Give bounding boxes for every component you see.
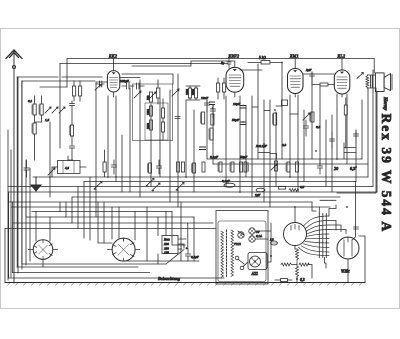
wire col 326 — [325, 120, 327, 187]
capacitor C6 — [205, 100, 210, 112]
wire drop sA left — [35, 212, 37, 242]
junction dot bus c — [239, 191, 241, 193]
capacitor C3 — [24, 160, 29, 177]
wire drop x119 — [118, 207, 120, 238]
wire mid col g — [185, 100, 187, 177]
label R21 dash — [217, 163, 219, 171]
capacitor C5 — [137, 83, 145, 89]
wire R16 leads — [313, 84, 334, 86]
wire mid col d — [159, 99, 161, 177]
svg-text:1000: 1000 — [146, 109, 150, 116]
junction dot 5k — [281, 62, 283, 64]
dot t7 — [49, 176, 51, 178]
resistor R19 — [193, 163, 196, 173]
capacitor C14 — [354, 130, 359, 142]
wire col 270 — [269, 100, 271, 207]
resistor R16 horizontal — [320, 83, 328, 86]
switch arm mains — [166, 250, 184, 265]
wire nest top c — [71, 197, 73, 223]
output transformer windings — [366, 75, 376, 88]
svg-text:Horny: Horny — [382, 96, 387, 111]
capacitor C15 2uF — [310, 72, 315, 86]
zigzag on bus — [289, 189, 299, 192]
trimmer arrow EK2 — [95, 85, 101, 91]
wire block leads — [52, 156, 86, 177]
elko plus marks — [210, 102, 215, 105]
wire right v355 — [352, 182, 355, 241]
wire col 258 — [257, 64, 259, 159]
wire socket A stem — [42, 260, 44, 267]
dot t3 — [212, 107, 214, 109]
trimmer arrow t2 — [48, 168, 55, 175]
wire bus 6 — [8, 201, 312, 203]
wire socket stubs lr — [29, 249, 140, 251]
trimmer arrow R22 — [271, 164, 277, 170]
wire ladder riser a — [318, 207, 320, 214]
resistor R11 — [274, 113, 277, 125]
IF transformer T1 coil a — [73, 86, 76, 96]
band switch arrow a — [146, 179, 154, 187]
resistor R7 — [162, 122, 165, 132]
wire drop x147 — [146, 207, 148, 261]
resistor R10b — [202, 112, 205, 124]
wire EM1 cathode — [289, 95, 291, 177]
electrolytic block 4uF — [58, 161, 81, 174]
wire x72 — [71, 101, 73, 145]
tube socket V3 right — [337, 237, 359, 259]
trimmer arrow t4 — [149, 92, 156, 99]
trimmer arrow t1a — [45, 107, 51, 113]
power unit box — [216, 211, 268, 285]
pilot contact c1 — [235, 256, 239, 260]
capacitor C7 — [211, 105, 216, 118]
wire mid col a — [129, 88, 131, 192]
label R1 — [31, 105, 33, 114]
resistor R17 — [103, 162, 106, 172]
dot t8 — [107, 176, 109, 178]
wire left col 6 — [29, 168, 31, 261]
wire T1 ties — [74, 81, 80, 101]
wire fan riser2 — [312, 202, 316, 211]
resistor R24 — [296, 162, 299, 172]
wire bottom b5 — [9, 277, 224, 279]
tubular capacitor on bus 1 — [224, 183, 235, 187]
svg-text:0,1A: 0,1A — [256, 234, 262, 239]
antenna — [6, 50, 22, 283]
resistor R21d — [244, 162, 247, 172]
wire left drop 1 — [4, 229, 6, 283]
rectifier AZ1 box — [248, 253, 267, 270]
tie c — [276, 105, 282, 107]
oscillator coil L2 — [157, 88, 160, 98]
wire left drop 6 — [25, 207, 27, 217]
IF transformer T1 coil b — [79, 86, 82, 96]
transformer inner box — [218, 221, 266, 282]
tube EBF2 — [226, 61, 244, 97]
wire drop x135 — [134, 212, 136, 241]
pilot contact c2 — [240, 266, 244, 270]
wire mid col c — [150, 104, 152, 187]
wire left drop 3 — [12, 202, 14, 273]
dot t10 — [294, 206, 296, 208]
wire left col 1 — [7, 130, 9, 280]
wire EM1 to EL2 tie — [303, 73, 334, 75]
tube socket V2 — [112, 238, 135, 261]
coil L3a — [177, 162, 180, 172]
wire mid top tie — [240, 69, 262, 71]
wire power to fan — [268, 223, 271, 262]
wire power internals — [238, 231, 268, 239]
wire ladder riser b — [329, 205, 336, 216]
grid cap EBF2 — [227, 59, 231, 69]
wire drop x112 — [111, 207, 113, 239]
wire fan riser — [294, 207, 296, 223]
label R2b — [31, 124, 33, 133]
junction 6,3 top — [355, 166, 357, 168]
heater resistor bottom — [296, 266, 299, 278]
svg-text:Netz: Netz — [163, 238, 170, 242]
wire bus 7 — [11, 206, 330, 208]
svg-text:1,5: 1,5 — [45, 118, 50, 123]
wire left drop 5 — [21, 81, 23, 264]
junction dots R11 — [274, 109, 276, 111]
svg-text:10μF: 10μF — [233, 102, 241, 106]
IF transformer T2 coil b — [223, 83, 226, 92]
svg-text:5000: 5000 — [191, 89, 195, 96]
wire bottom b1 — [124, 260, 199, 262]
svg-text:1μF: 1μF — [255, 193, 261, 197]
wire terminals to socketC b — [329, 225, 341, 232]
wire R17 leads — [104, 150, 106, 177]
speaker — [375, 73, 392, 92]
wire terminal bottom cont — [325, 258, 327, 269]
junction dot bus a — [115, 176, 117, 178]
wire bottom b4 — [13, 272, 150, 274]
junction dot bus d — [289, 176, 291, 178]
wire selector leads — [178, 239, 186, 249]
resistor R22 — [275, 161, 278, 171]
resistor R18 — [149, 163, 152, 173]
trimmer arrow t7 — [357, 73, 363, 79]
wire main B+ bus — [33, 176, 368, 178]
svg-text:0,5: 0,5 — [300, 185, 304, 190]
wire right edge col — [372, 70, 374, 187]
osc outer box — [133, 84, 173, 141]
wire drop x181 — [180, 202, 182, 261]
label R2c — [68, 126, 70, 135]
label R2 — [38, 105, 40, 114]
wire drop x194 — [193, 217, 195, 261]
resistor 5k between EBF2 and EM1 — [248, 61, 282, 65]
dial lamp La1 — [249, 228, 255, 234]
label R11 — [272, 114, 274, 124]
dot t5 — [315, 150, 317, 152]
wire nest top a — [59, 202, 61, 212]
capacitor C4 100pF — [122, 83, 134, 89]
resistor box bottom — [275, 279, 292, 282]
wire nest h5 — [13, 222, 213, 224]
svg-text:10nF: 10nF — [201, 96, 209, 100]
svg-text:EBF2: EBF2 — [228, 54, 240, 59]
wire EBF2 cathode — [225, 96, 227, 187]
fan ladder verticals — [319, 214, 326, 258]
capacitor C72 — [70, 146, 75, 148]
resistor R20 — [202, 162, 205, 172]
wire x50 down — [49, 122, 51, 197]
wire antenna coupling vertical — [59, 64, 61, 149]
svg-text:500: 500 — [146, 95, 150, 100]
resistor R23 — [287, 162, 290, 172]
svg-text:3000: 3000 — [146, 123, 150, 130]
wire nest top f — [89, 177, 91, 240]
wire left col 2 — [10, 150, 12, 277]
resistor R3 — [150, 92, 153, 102]
wire left drop 4 — [16, 77, 18, 267]
wire heater bottom — [296, 277, 298, 283]
junction dot UR — [270, 255, 272, 257]
trimmer arrow t6 — [303, 113, 310, 120]
svg-text:220: 220 — [164, 242, 169, 246]
wire EK2 right grid — [122, 74, 173, 84]
wire drop x104 — [103, 202, 105, 243]
resistor R21c — [240, 162, 243, 172]
label R23 dash — [285, 163, 287, 171]
svg-text:LS: LS — [269, 238, 274, 242]
wire nest h6 — [5, 228, 216, 230]
resistor on bus — [279, 186, 286, 189]
wire col 320 — [319, 86, 321, 164]
tie a — [252, 106, 258, 108]
svg-text:2μF: 2μF — [306, 68, 312, 72]
wire R8R9 box — [186, 86, 200, 100]
dot t9 — [225, 186, 227, 188]
wire EBF2 col 1 — [206, 100, 208, 159]
tie e — [270, 154, 277, 160]
wire nest top b — [65, 202, 67, 217]
junction dot bus b — [185, 176, 187, 178]
dot t4 — [263, 143, 265, 145]
wire bus 3 — [8, 186, 373, 188]
wire tie 147 — [344, 143, 356, 159]
dot t6 — [71, 159, 73, 161]
wire x122 — [121, 135, 123, 192]
tube EL2 — [334, 59, 350, 98]
capacitor C21 — [318, 160, 323, 174]
label R14 — [309, 113, 311, 121]
wire HT bus right — [207, 158, 362, 160]
resistor R21 — [219, 162, 222, 172]
tie b — [264, 110, 270, 112]
wire drop x166 — [165, 212, 167, 236]
wire col 246 — [245, 106, 247, 177]
cap at 356 — [354, 227, 359, 229]
svg-text:5g: 5g — [221, 61, 225, 65]
junction dot bus e — [336, 158, 338, 160]
resistor R9 — [195, 88, 198, 98]
label R21b dash — [229, 163, 231, 171]
svg-text:0,3: 0,3 — [282, 143, 286, 148]
wire left col 4 — [21, 81, 23, 269]
svg-text:6,3: 6,3 — [350, 166, 355, 172]
wire bus 5 — [72, 196, 340, 198]
wire mid col e — [169, 90, 171, 202]
IF transformer T2 coil a — [217, 83, 220, 92]
ground arrow on B+ bus — [31, 177, 41, 191]
wire nest top d — [77, 187, 79, 229]
wire col 312 — [311, 72, 313, 159]
wire EL2 cathode — [336, 94, 338, 159]
wire R1R2 leads — [35, 96, 42, 123]
label R10 — [208, 129, 210, 139]
tubular capacitor on bus 2 — [256, 188, 265, 192]
resistor R2 — [40, 104, 43, 115]
wire terminals to socketC c — [329, 230, 346, 234]
capacitor C13 — [330, 132, 335, 148]
trimmer arrow t1c — [59, 107, 65, 113]
switch lines power — [239, 260, 249, 267]
wire screen bus right — [213, 163, 368, 165]
label R18 dash — [147, 164, 149, 172]
svg-text:EM1: EM1 — [289, 54, 299, 59]
wire R15 leads — [345, 98, 347, 148]
coil L3b — [182, 162, 185, 172]
resistor R8 — [189, 88, 192, 98]
wire right col 362 — [361, 100, 363, 159]
wire heater node — [292, 262, 312, 278]
wire bottom b3 — [17, 266, 138, 268]
wire R2b lead — [34, 134, 36, 160]
trimmer arrow t5 — [172, 89, 179, 96]
wire top anode bus — [67, 59, 374, 88]
wire mid col f — [177, 74, 179, 207]
wire L2 leads — [157, 80, 159, 104]
dot t2 — [242, 121, 244, 123]
osc box — [145, 103, 168, 140]
junction 6.3 — [296, 278, 298, 280]
wire EK2 screen down — [115, 96, 117, 182]
band arrows mid-left — [94, 182, 102, 190]
capacitor C18b — [200, 147, 206, 150]
resistor R10 — [210, 128, 213, 140]
fan tube socket — [284, 223, 307, 246]
heater resistor right — [299, 263, 309, 266]
switch dot — [186, 247, 188, 249]
wire drop x172 — [172, 212, 185, 246]
wire terminals to socketC a — [329, 221, 336, 231]
resistor R4 — [150, 106, 153, 116]
wire col 347 — [346, 94, 348, 164]
resistor R2b — [33, 123, 36, 134]
wire left col 3 — [17, 77, 19, 273]
tube socket V1 — [33, 240, 53, 260]
band switch arrow c — [176, 183, 184, 191]
voltage selector box — [162, 236, 178, 255]
svg-text:0,1: 0,1 — [28, 99, 33, 104]
capacitor C17 — [157, 160, 162, 174]
dial lamp La2 — [249, 236, 255, 242]
label R21d — [248, 163, 250, 171]
svg-text:AZ1: AZ1 — [251, 271, 259, 276]
wire col 252 — [251, 96, 253, 197]
capacitor C12 — [304, 120, 309, 136]
wire EBF2 col 2 — [212, 105, 214, 164]
svg-text:W.Rkt: W.Rkt — [341, 270, 350, 274]
capacitor 0,5uF mains — [186, 248, 191, 261]
wire bus 4 — [8, 191, 377, 193]
band switch arrow b — [152, 183, 160, 191]
wire col 264 — [263, 100, 265, 202]
wire col 332 — [331, 115, 333, 192]
svg-text:EK2: EK2 — [108, 54, 117, 59]
svg-text:125: 125 — [164, 251, 169, 255]
rectifier AZ1 — [250, 256, 261, 267]
wire col 356 — [355, 130, 357, 182]
svg-text:0,5μF: 0,5μF — [191, 255, 200, 260]
wire nest h3 — [32, 211, 172, 213]
wire right h193 — [337, 88, 376, 193]
svg-text:Rex 39 W 544 A: Rex 39 W 544 A — [379, 114, 394, 234]
wire drop x98 — [98, 202, 112, 243]
wire left horiz — [40, 86, 67, 88]
label R10b — [200, 113, 202, 123]
wire right socket bottom — [347, 259, 349, 283]
heater resistor left — [281, 263, 291, 266]
wire fan bottom stub — [295, 246, 297, 250]
capacitor C8b 50uF — [240, 122, 246, 125]
wire drop x188 — [187, 223, 189, 247]
wire left col 5 — [25, 160, 27, 265]
wire left return — [22, 80, 95, 82]
svg-text:20: 20 — [334, 166, 339, 171]
wire socket B stem — [123, 238, 125, 241]
resistor R2c — [70, 125, 73, 136]
resistor R10a — [211, 114, 214, 125]
resistor R14 — [311, 112, 314, 122]
chassis bus hatched — [5, 283, 365, 286]
svg-text:4,5: 4,5 — [65, 166, 69, 171]
svg-text:7112: 7112 — [234, 242, 241, 246]
dot t11 — [346, 206, 348, 208]
svg-text:5 kΩ: 5 kΩ — [259, 56, 266, 60]
wire mid col h — [193, 110, 195, 192]
wire drop x158 — [157, 217, 159, 264]
dial lamp La3 — [238, 232, 244, 238]
transformer core — [226, 230, 228, 277]
resistor R21b — [231, 162, 234, 172]
wire col 282 — [281, 63, 283, 160]
wire EK2 cathode down — [107, 96, 109, 177]
wire R6R7 — [162, 99, 164, 140]
resistor R6 — [162, 108, 165, 118]
resistor box 03 — [282, 100, 288, 106]
wire col 276 — [275, 112, 277, 187]
wire antenna coupling horizontal — [60, 63, 228, 65]
cap pair mid — [175, 117, 180, 119]
dot t1 — [242, 105, 244, 107]
wire right v365 — [359, 236, 365, 283]
wire left drop 2 — [8, 192, 10, 278]
tie d — [290, 113, 298, 115]
wire right h200 — [320, 199, 336, 201]
wire col 298 — [297, 95, 299, 192]
capacitor C16 — [112, 160, 117, 174]
svg-text:Beleuchtung: Beleuchtung — [158, 276, 181, 281]
wire right col 368 — [367, 88, 369, 177]
trimmer arrow t1b — [52, 107, 58, 113]
svg-text:100pF: 100pF — [120, 79, 130, 83]
fan pins — [299, 216, 329, 256]
capacitor C71 — [70, 104, 75, 106]
